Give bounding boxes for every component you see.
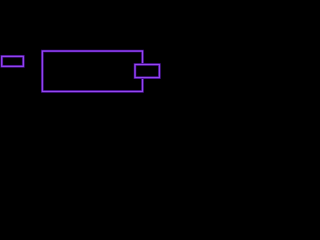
port box P1 (left) bbox=[2, 56, 24, 66]
port box P2 (on right edge of U1) bbox=[135, 65, 159, 78]
block U1 body bbox=[42, 51, 142, 91]
